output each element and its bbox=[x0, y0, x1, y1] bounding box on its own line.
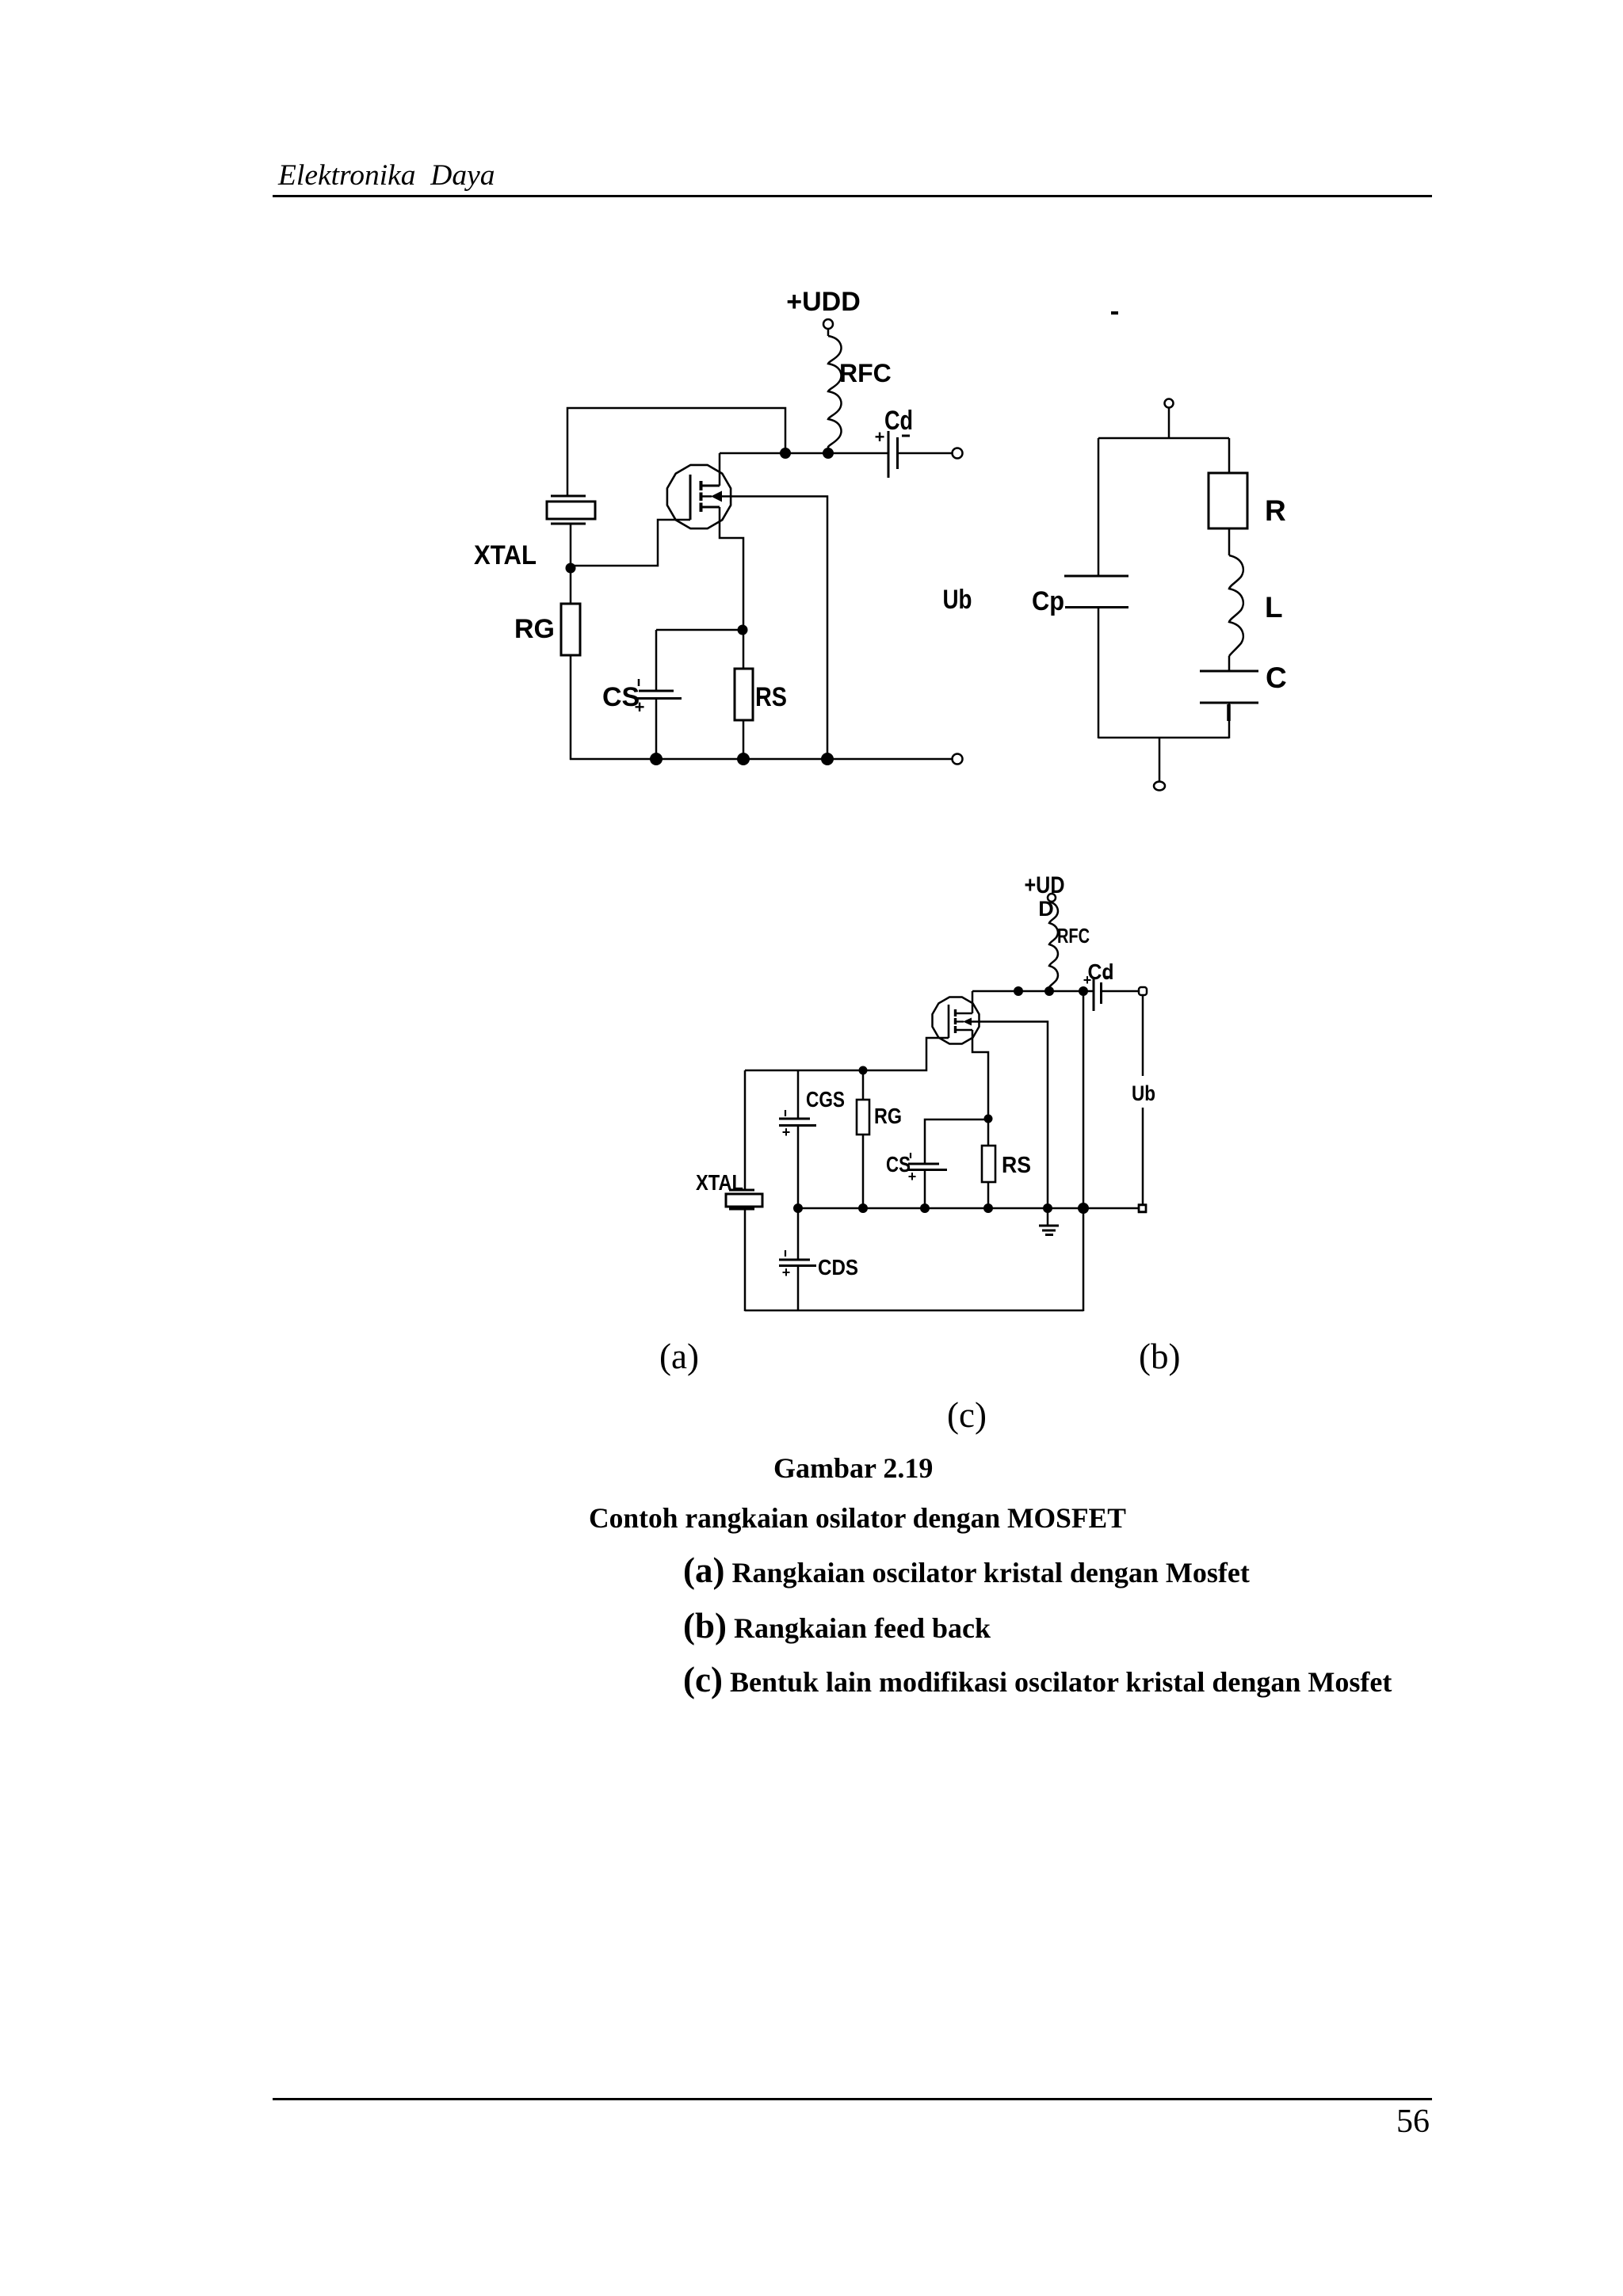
svg-text:R: R bbox=[1265, 494, 1286, 527]
resistor RG (c) bbox=[857, 1070, 902, 1208]
node Ub label (c) bbox=[1132, 1081, 1155, 1105]
node +UDD label (c) bbox=[1025, 872, 1065, 921]
svg-text:RG: RG bbox=[514, 614, 555, 644]
wire RG to ground bus (a) bbox=[570, 655, 572, 760]
svg-text:Cd: Cd bbox=[1088, 959, 1114, 984]
wire drain lead (c) bbox=[972, 991, 974, 1013]
node Ub label (a) bbox=[943, 585, 972, 615]
terminal output bottom (c) bbox=[1139, 1205, 1146, 1212]
transistor Q1 MOSFET (a) bbox=[667, 465, 731, 528]
wire XTAL to node (a) bbox=[570, 524, 572, 568]
svg-text:L: L bbox=[1265, 591, 1283, 624]
wire left branch to XTAL (c) bbox=[744, 1070, 747, 1190]
junction CS-bus (a) bbox=[650, 753, 663, 765]
caption subtitle bbox=[589, 1501, 1126, 1535]
wire Cd to terminal (c) bbox=[1102, 990, 1140, 993]
svg-text:C: C bbox=[1266, 662, 1287, 694]
wire right branch top (b) bbox=[1228, 438, 1231, 473]
wire left branch lower (b) bbox=[1098, 608, 1100, 739]
svg-text:RG: RG bbox=[874, 1104, 902, 1128]
junction substrate-bus (a) bbox=[821, 753, 834, 765]
wire drain bus (a) bbox=[720, 452, 888, 455]
svg-text:RS: RS bbox=[755, 682, 787, 712]
caption label (b) bbox=[1139, 1336, 1180, 1377]
caption title "Gambar 2.19" bbox=[773, 1451, 933, 1485]
capacitor CDS (c) bbox=[779, 1208, 858, 1311]
svg-text:RFC: RFC bbox=[1057, 924, 1090, 948]
svg-text:XTAL: XTAL bbox=[474, 540, 537, 570]
resistor RS (c) bbox=[982, 1119, 1031, 1208]
svg-text:CDS: CDS bbox=[818, 1255, 858, 1280]
wire C to bottom rail (b) bbox=[1227, 704, 1231, 721]
capacitor Cd (a) bbox=[875, 406, 913, 478]
wire riser (c) bbox=[1083, 991, 1085, 1311]
svg-text:Cd: Cd bbox=[884, 406, 913, 436]
wire +UDD to RFC (a) bbox=[827, 329, 830, 336]
capacitor C (b) bbox=[1200, 662, 1287, 703]
wire top rail (b) bbox=[1098, 437, 1229, 440]
wire substrate to ground (c) bbox=[972, 1022, 1048, 1209]
junction CS-bus (c) bbox=[920, 1203, 930, 1213]
ground symbol (c) bbox=[1039, 1208, 1059, 1235]
svg-text:Ub: Ub bbox=[943, 585, 972, 615]
svg-text:+: + bbox=[1083, 972, 1092, 988]
capacitor CGS (c) bbox=[779, 1070, 845, 1208]
svg-text:Ub: Ub bbox=[1132, 1081, 1155, 1105]
terminal +UDD (c) bbox=[1048, 894, 1056, 902]
svg-text:+: + bbox=[635, 697, 645, 717]
inductor L (b) bbox=[1229, 555, 1283, 656]
caption label (c) bbox=[947, 1394, 987, 1436]
junction RG-bus (c) bbox=[858, 1203, 868, 1213]
wire L to C (b) bbox=[1228, 656, 1231, 671]
wire substrate to ground (a) bbox=[722, 497, 827, 761]
svg-text:+: + bbox=[908, 1169, 917, 1184]
terminal bottom (b) bbox=[1154, 782, 1165, 791]
svg-text:D: D bbox=[1038, 897, 1054, 921]
crystal XTAL (a) bbox=[474, 496, 595, 570]
terminal top (b) bbox=[1165, 399, 1174, 408]
junction bus-left (c) bbox=[1014, 986, 1023, 996]
terminal output top (a) bbox=[953, 448, 963, 459]
resistor R (b) bbox=[1209, 473, 1286, 528]
junction riser-bus (c) bbox=[1078, 1203, 1089, 1214]
wire Ub upper (c) bbox=[1142, 995, 1144, 1076]
resistor RS (a) bbox=[735, 630, 787, 720]
page number 56 bbox=[1396, 2103, 1430, 2141]
crystal XTAL (c) bbox=[696, 1170, 762, 1209]
wire Ub lower (c) bbox=[1142, 1108, 1144, 1205]
svg-text:CGS: CGS bbox=[806, 1087, 845, 1112]
junction source node (a) bbox=[738, 625, 748, 635]
wire bottom rail (c) bbox=[745, 1310, 1083, 1312]
wire source node to CS (c) bbox=[925, 1119, 988, 1164]
junction bus-riser (c) bbox=[1079, 986, 1088, 996]
wire drain bus (c) bbox=[972, 990, 1094, 993]
wire drain lead (a) bbox=[719, 453, 721, 486]
wire CS to ground bus (a) bbox=[655, 699, 658, 761]
svg-text:+: + bbox=[782, 1124, 791, 1140]
caption item (c) bbox=[683, 1659, 1392, 1700]
transistor Q1 MOSFET (c) bbox=[933, 997, 980, 1044]
svg-text:+: + bbox=[782, 1264, 791, 1280]
junction (a) drain-feedback bbox=[780, 448, 791, 459]
svg-text:RFC: RFC bbox=[839, 359, 892, 387]
wire terminal to rail (b) bbox=[1168, 408, 1170, 438]
svg-text:+UD: +UD bbox=[1025, 872, 1065, 898]
capacitor Cp (b) bbox=[1032, 576, 1128, 616]
footer rule bbox=[273, 2098, 1432, 2100]
wire node to gate (a) bbox=[571, 520, 690, 566]
svg-text:RS: RS bbox=[1002, 1153, 1031, 1178]
wire source lead (a) bbox=[720, 507, 743, 630]
wire ground bus (a) bbox=[570, 758, 952, 761]
capacitor Cd (c) bbox=[1083, 959, 1114, 1011]
wire source ground bus (c) bbox=[798, 1207, 1139, 1210]
wire R to L (b) bbox=[1228, 528, 1231, 555]
terminal ground bus right (c) bbox=[1139, 1205, 1146, 1212]
terminal output bottom (a) bbox=[953, 754, 963, 765]
wire Cd to output (a) bbox=[898, 452, 953, 455]
resistor RG (a) bbox=[514, 573, 580, 655]
junction RS-bus (c) bbox=[983, 1203, 993, 1213]
inductor RFC (a) bbox=[828, 336, 892, 453]
wire gate feedback loop (a) bbox=[567, 408, 785, 496]
wire bottom rail (b) bbox=[1098, 737, 1229, 739]
capacitor CS (c) bbox=[886, 1152, 947, 1208]
wire source node to CS (a) bbox=[656, 629, 743, 631]
junction source node (c) bbox=[984, 1115, 993, 1123]
svg-text:Cp: Cp bbox=[1032, 586, 1064, 616]
wire XTAL to bottom rail (c) bbox=[744, 1209, 747, 1311]
header running title "Elektronika Daya" bbox=[278, 158, 495, 193]
capacitor CS (a) bbox=[602, 630, 682, 717]
junction (a) RFC-bus bbox=[823, 448, 834, 459]
junction gate node (a) bbox=[566, 563, 576, 574]
caption item (a) bbox=[683, 1550, 1250, 1591]
wire RS to ground bus (a) bbox=[743, 720, 745, 760]
wire rail to bottom terminal (b) bbox=[1159, 738, 1161, 782]
svg-text:+UDD: +UDD bbox=[786, 287, 861, 317]
wire source lead (c) bbox=[972, 1030, 988, 1119]
junction RS-bus (a) bbox=[737, 753, 750, 765]
wire left branch upper (b) bbox=[1098, 438, 1100, 576]
stray minus mark (b) bbox=[1111, 311, 1118, 315]
inductor RFC (c) bbox=[1049, 902, 1090, 991]
svg-text:XTAL: XTAL bbox=[696, 1170, 743, 1195]
wire gate lead (c) bbox=[745, 1038, 949, 1070]
header rule bbox=[273, 195, 1432, 197]
junction RFC-bus (c) bbox=[1044, 986, 1054, 996]
node +UDD label (a) bbox=[786, 287, 861, 317]
terminal +UDD (a) bbox=[823, 319, 833, 329]
junction CGS-bus (c) bbox=[793, 1203, 803, 1213]
svg-text:+: + bbox=[875, 427, 885, 447]
junction ground-bus (c) bbox=[1043, 1203, 1052, 1213]
caption label (a) bbox=[659, 1336, 699, 1377]
terminal output top (c) bbox=[1139, 987, 1147, 995]
junction RG-gate rail (c) bbox=[859, 1066, 868, 1075]
caption item (b) bbox=[683, 1605, 991, 1646]
svg-text:CS: CS bbox=[886, 1152, 911, 1177]
